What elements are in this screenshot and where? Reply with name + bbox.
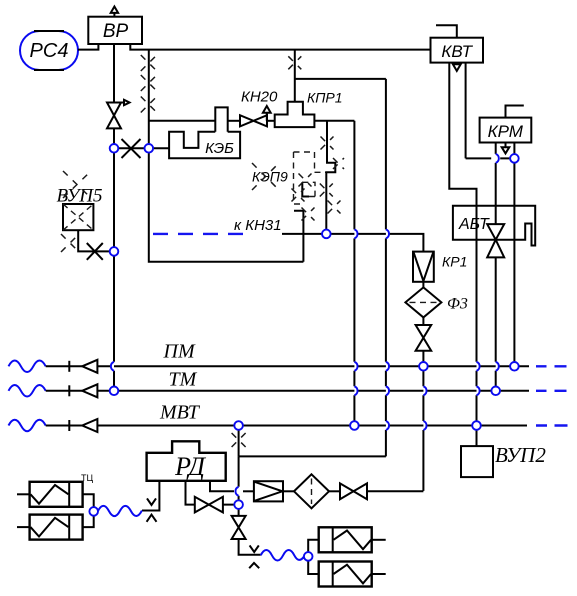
wire cylinder 1 to left node	[83, 494, 94, 511]
wire PC4 to BP stub	[78, 44, 98, 50]
hop arc x354.4 over PM	[354, 362, 357, 371]
dashed X below VUP5 box	[61, 234, 79, 252]
wire ABT pass-through down to MBT (hops PM TM)	[476, 206, 478, 426]
TM hose (blue wave)	[9, 385, 46, 397]
hop arc x385.9 over TM	[386, 386, 389, 395]
node MBT x238.6	[234, 421, 243, 430]
svg-text:КЭП9: КЭП9	[252, 169, 288, 185]
svg-text:ТМ: ТМ	[169, 369, 198, 391]
wire vertical x385.9 down to elbow y456.4 (hops)	[385, 79, 387, 457]
svg-text:КРМ: КРМ	[488, 122, 524, 141]
hop arc x476.5 over TM	[477, 386, 480, 395]
wire vertical x114 node to node	[113, 148, 115, 251]
wire branch y78.9 to x385.9	[295, 78, 386, 80]
dashed cross-out X over VUP5 label	[63, 171, 91, 198]
wire feed from top to KPR1	[294, 50, 296, 102]
PM main line	[97, 365, 529, 367]
valve on RD drain (horizontal bowtie)	[195, 497, 223, 513]
drain valve (vertical bowtie)	[232, 516, 246, 539]
wire valve to node	[223, 504, 239, 506]
brake cylinder left 1	[17, 482, 83, 507]
wire check valve to filter	[283, 490, 294, 492]
wire vertical below BP center stub	[113, 44, 115, 103]
MBT line left fitting	[46, 419, 98, 432]
reservoir PC4 (blue stadium)	[20, 31, 78, 70]
KEP9 new solid drop from KPR1 wire	[326, 121, 335, 230]
valve below BP (vertical bowtie)	[107, 100, 130, 129]
wire KRM right stub down through ABT to PM	[513, 143, 515, 367]
svg-text:РД: РД	[174, 452, 206, 481]
node right cylinders	[304, 552, 313, 561]
wire VUP5 to node x114	[78, 230, 110, 251]
svg-text:РС4: РС4	[30, 40, 69, 62]
wire RD middle stub to valve	[186, 481, 195, 505]
node below KRM x514.4 y158.4	[510, 154, 519, 163]
hop arc x354.4 over TM	[354, 386, 357, 395]
node TM x495.7	[491, 387, 500, 396]
wire RD right stub to check valve line	[210, 481, 234, 492]
hop arc x385.9 over PM	[386, 362, 389, 371]
hose (blue wave) left node to RD corner	[98, 506, 142, 516]
crossed-out wire between nodes at y148	[114, 147, 149, 149]
dashed cross-out X marks over KEP9 area	[321, 137, 334, 150]
wire k KH31 line to KP1 column	[282, 234, 423, 252]
wire x238.6 down to lower node (hop at check line)	[238, 456, 240, 504]
removed valve KEP9 (dashed outline)	[252, 152, 326, 204]
valve on drain line (horizontal bowtie)	[340, 483, 367, 499]
PM blue dashes right	[536, 365, 567, 367]
hop arc x423.4 over MBT	[423, 421, 426, 430]
brake cylinder right 2	[319, 562, 386, 587]
isolating valve below F3 (vertical bowtie)	[416, 325, 432, 351]
cross-out X on wire	[122, 139, 141, 158]
switch VUP2 box	[461, 446, 493, 477]
BP vent triangle	[111, 7, 118, 17]
switch VUP5 box	[63, 204, 93, 230]
wire node to cylinder 2	[308, 556, 319, 574]
svg-text:КПР1: КПР1	[307, 90, 343, 106]
pressure limiter KPR1	[275, 90, 343, 128]
svg-text:Ф3: Ф3	[447, 296, 468, 313]
brake cylinder right 1	[319, 527, 386, 552]
PM hose (blue wave)	[9, 361, 46, 373]
node at x114 y251.4	[110, 247, 119, 256]
wire lower node to drain valve	[238, 505, 240, 516]
wire KP1 to F3	[422, 282, 424, 288]
pressure reducer KP1	[413, 252, 467, 282]
node PM x423.4	[419, 362, 428, 371]
wire KPR1 right to x354.4	[314, 120, 354, 122]
hose (blue wave) to right cylinders node	[261, 550, 304, 561]
node left cylinders	[89, 507, 98, 516]
wire KRM left stub down through ABT to TM (hops)	[495, 143, 497, 391]
wire valve to riser elbow	[367, 490, 423, 492]
svg-text:МВТ: МВТ	[159, 402, 201, 424]
hop arc x495.7 over PM	[496, 362, 499, 371]
svg-text:КВТ: КВТ	[441, 42, 473, 61]
wire drain valve to hose corner	[239, 539, 261, 555]
node PM x514.4	[510, 362, 519, 371]
hop arc x495.7 over KBT branch wire	[496, 154, 499, 163]
KEP9 solid inner notch	[302, 182, 309, 196]
wire node to cylinder 1	[308, 540, 319, 557]
air distributor BP box	[88, 17, 142, 44]
wire vertical x354.4 down to MBT (hops)	[353, 121, 355, 426]
node bottom x238.6 y504.6	[234, 500, 243, 509]
KBT top hook	[436, 25, 457, 38]
dashed cross-out X over KEP9 label	[252, 163, 279, 190]
check valve (rect with triangle)	[254, 481, 283, 501]
electric blocking valve KEB	[169, 107, 240, 158]
brake valve KBT box	[431, 38, 484, 63]
tap KH20 (bowtie valve)	[240, 89, 278, 127]
svg-text:ПМ: ПМ	[163, 341, 196, 363]
hop arc x114 over PM (bulge left)	[111, 362, 114, 371]
dashed X on KPR1 feed	[288, 56, 301, 69]
wire elbow y456.4 from x385.9 to x238.6	[239, 455, 386, 457]
cross-out X on VUP5 wire	[87, 243, 103, 260]
node MBT x354.4	[350, 421, 359, 430]
wire filter to valve	[329, 490, 340, 492]
dashed X on that wire	[232, 433, 246, 447]
node MBT x476.5	[472, 421, 481, 430]
wire valve to PM node and down (hops TM, MBT)	[422, 351, 424, 491]
MBT blue dashes right	[536, 424, 568, 426]
TM line left fitting	[46, 384, 98, 397]
wire BP right stub to KBT	[130, 44, 430, 50]
MBT hose (blue wave)	[9, 420, 46, 432]
removed branch vertical x148.8 from top wire	[148, 50, 150, 149]
wire node to KEB body	[149, 147, 169, 149]
hop arc x476.5 over PM	[477, 362, 480, 371]
wire x148.8 branch to KEB tower	[149, 120, 216, 122]
node at x114 y148.3	[110, 144, 119, 153]
svg-text:ВР: ВР	[103, 21, 129, 42]
wire x148.8 node down and right to KEP9 drop	[149, 148, 304, 261]
TM blue dashes right	[536, 390, 567, 392]
wire RD left stub to hose corner	[142, 481, 159, 511]
wire valve to node	[113, 128, 115, 148]
wire vertical x114 down to TM (hop over PM)	[113, 251, 115, 390]
filter F3 (diamond)	[405, 287, 467, 317]
wire cylinder 2 to left node	[83, 511, 94, 527]
filter (diamond) on drain line	[294, 474, 329, 508]
dashed X inside VUP5 box	[63, 204, 93, 230]
node TM x114	[110, 387, 119, 396]
crane KRM box	[480, 118, 532, 143]
hop arc x423.4 over TM	[423, 386, 426, 395]
dashed cross-out X marks on x148.8	[141, 55, 157, 71]
svg-text:КЭБ: КЭБ	[205, 140, 234, 157]
svg-text:ВУП2: ВУП2	[495, 443, 546, 467]
blue dashed start of k KH31 line	[153, 233, 243, 235]
hose coupling chevrons at RD left	[147, 498, 157, 521]
autostop brake device ABT	[453, 206, 535, 246]
wire KBT right down elbow to node	[466, 63, 515, 159]
wire KEB tower to KH20	[228, 120, 240, 122]
wire KBT left down elbow to ABT	[449, 63, 476, 206]
svg-text:КН20: КН20	[241, 89, 278, 106]
hop arc x385.9 over MBT	[386, 421, 389, 430]
svg-text:к КН31: к КН31	[234, 217, 282, 234]
KEP9 solid bottom link	[294, 211, 303, 262]
hop arc x238.6 over check valve line (bulge left)	[235, 487, 238, 496]
TM main line	[97, 390, 529, 392]
KRM top hook	[506, 106, 524, 118]
pressure relay RD body	[147, 441, 226, 481]
hop arc x385.9 over kKH31	[386, 229, 389, 238]
brake cylinder left 2	[17, 515, 83, 540]
ABT valve (vertical bowtie)	[487, 224, 504, 257]
wire MBT node down (crossed out) to T elbow	[238, 426, 240, 457]
svg-text:КР1: КР1	[442, 254, 467, 270]
PM line left fitting	[46, 360, 98, 373]
wire F3 to valve	[422, 317, 424, 325]
MBT main line	[97, 425, 527, 427]
node on kKH31 line x326.3	[322, 230, 331, 239]
wire MBT node to VUP2	[476, 426, 478, 447]
svg-text:АБТ: АБТ	[458, 216, 490, 233]
wire check valve line across hop to check valve	[243, 490, 254, 492]
hop arc x354.4 over kKH31	[354, 229, 357, 238]
hose coupling chevrons bottom	[249, 545, 259, 568]
KRM vent triangle	[502, 143, 510, 154]
wire KH20 to KPR1	[267, 120, 275, 122]
node at x148.8 y148.3	[145, 144, 154, 153]
KBT vent triangle	[453, 64, 461, 71]
